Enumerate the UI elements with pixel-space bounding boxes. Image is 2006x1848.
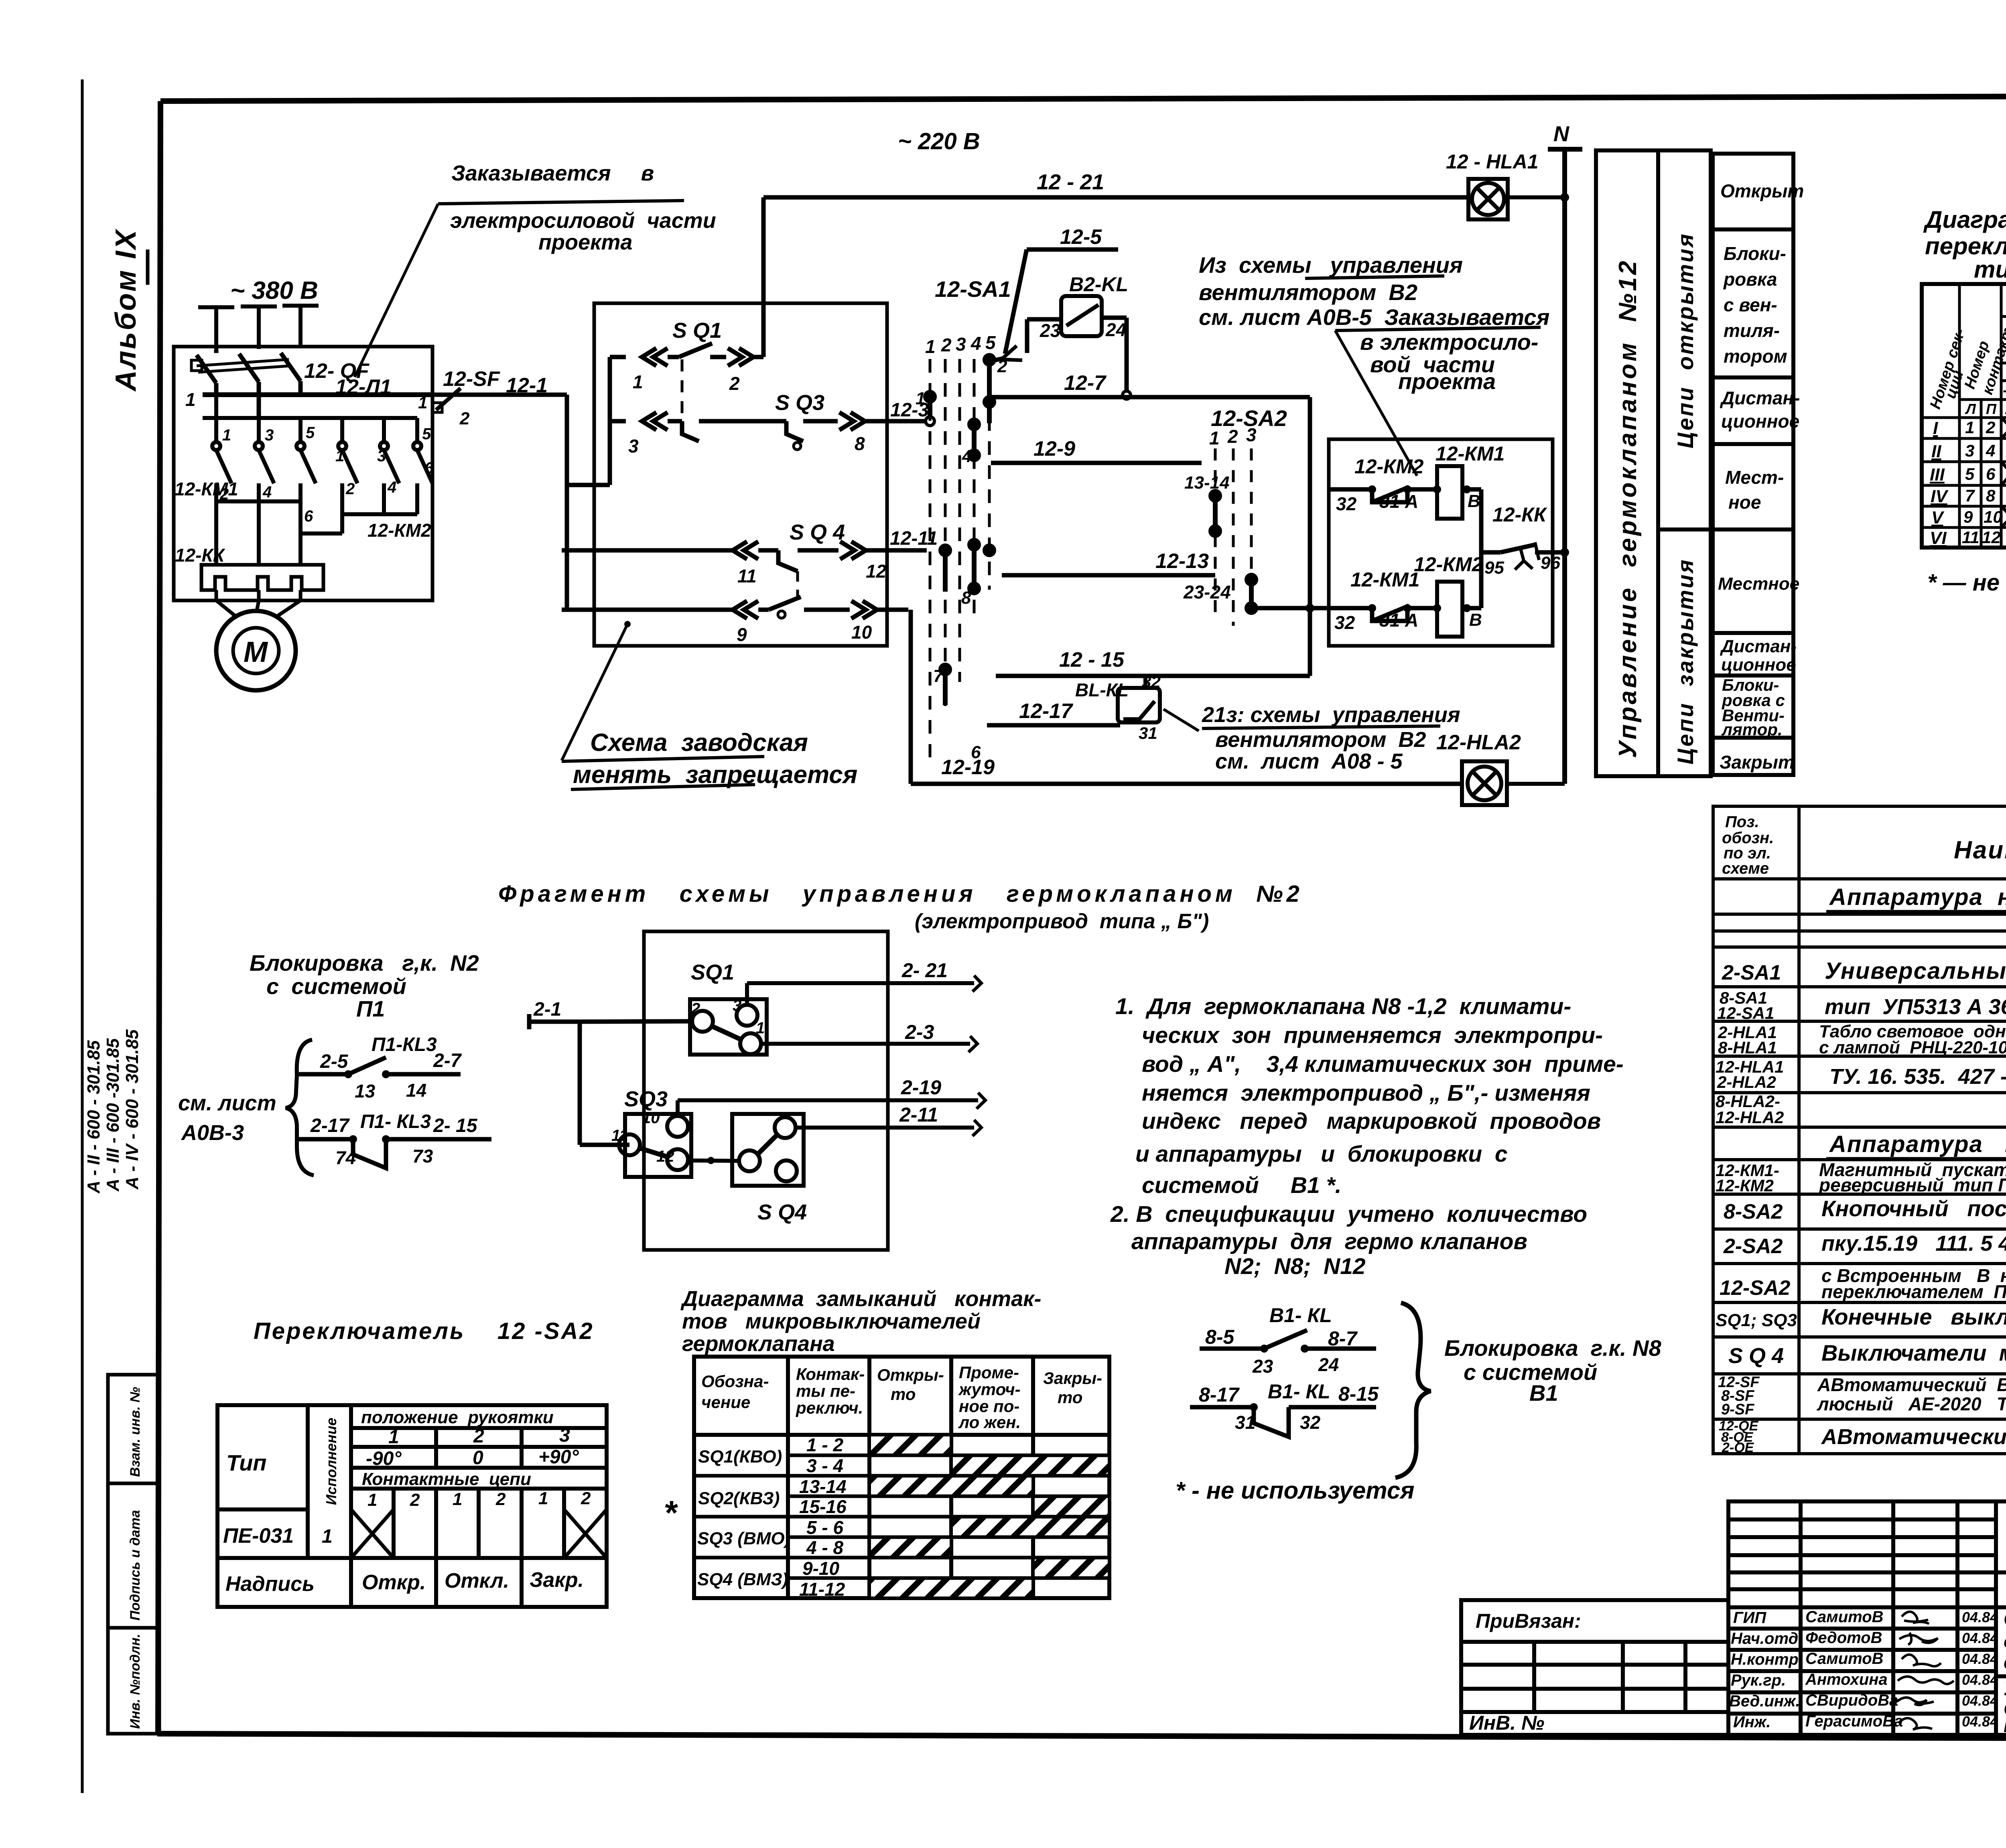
leader to 12-QF [355,204,438,377]
svg-text:1: 1 [756,1019,765,1037]
svg-text:2: 2 [1227,426,1238,447]
svg-text:32: 32 [1334,612,1355,633]
svg-text:Альбом IX: Альбом IX [110,229,142,392]
svg-text:А0В-3: А0В-3 [181,1121,244,1145]
svg-text:12-КМ2: 12-КМ2 [1354,455,1424,478]
svg-text:ФедотоВ: ФедотоВ [1805,1629,1882,1647]
svg-text:SQ4 (ВМЗ): SQ4 (ВМЗ) [697,1570,788,1589]
svg-text:6: 6 [1986,465,1996,483]
svg-text:Л: Л [1965,401,1976,417]
svg-text:1: 1 [222,426,231,444]
svg-text:11-12: 11-12 [799,1579,845,1600]
svg-text:96: 96 [1541,553,1560,573]
svg-text:Мест-: Мест- [1725,467,1784,488]
svg-text:ГерасимоВа: ГерасимоВа [1805,1712,1903,1730]
svg-text:21з: схемы управления: 21з: схемы управления [1202,703,1460,727]
svg-text:П1-КL3: П1-КL3 [372,1034,437,1055]
svg-text:13-14: 13-14 [799,1476,847,1497]
svg-text:10: 10 [1984,507,2002,526]
svg-text:вентилятором В2: вентилятором В2 [1215,728,1426,752]
annotation: Заказывается в электросиловой части проекта [450,161,716,254]
svg-text:5 - 6: 5 - 6 [806,1517,843,1538]
svg-text:4 - 8: 4 - 8 [806,1537,843,1558]
svg-text:12-КМ1: 12-КМ1 [1435,442,1504,465]
svg-text:SQ3 (ВМО): SQ3 (ВМО) [697,1529,790,1548]
svg-text:23-24: 23-24 [1183,582,1231,602]
svg-text:12-Л1: 12-Л1 [335,375,392,399]
svg-text:2: 2 [581,1489,591,1508]
svg-text:Конечные выключатели: Конечные выключатели [1821,1304,2006,1329]
svg-text:SQ3: SQ3 [624,1087,668,1111]
svg-text:+90°: +90° [538,1446,579,1468]
svg-text:14: 14 [406,1080,426,1101]
svg-text:2- 21: 2- 21 [901,959,948,982]
svg-text:4: 4 [1986,441,1995,460]
svg-text:чение: чение [701,1393,750,1412]
svg-text:32: 32 [1336,493,1357,514]
svg-text:5: 5 [306,424,315,442]
svg-text:то: то [891,1385,916,1404]
svg-text:Инв. №подлн.: Инв. №подлн. [128,1634,143,1729]
svg-text:12-SА2: 12-SА2 [1720,1276,1790,1300]
svg-text:тором: тором [1724,346,1787,367]
svg-text:Тип: Тип [226,1450,267,1475]
svg-text:15-16: 15-16 [799,1496,847,1517]
svg-text:12: 12 [656,1148,674,1165]
svg-text:Инж.: Инж. [1733,1713,1771,1731]
signatures (squiggles) [1897,1612,1954,1730]
svg-text:Вед.инж.: Вед.инж. [1729,1692,1800,1710]
svg-text:с лампой РНЦ-220-10: с лампой РНЦ-220-10 [1819,1038,2006,1057]
svg-text:6: 6 [304,507,313,525]
svg-text:В2-KL: В2-KL [1069,273,1128,296]
svg-text:ГИП: ГИП [1733,1609,1766,1627]
svg-text:8: 8 [1986,486,1996,505]
svg-text:32: 32 [1300,1412,1321,1433]
wire 12-9 [991,461,1202,465]
wire 12-15 [996,674,1310,678]
svg-text:Нач.отд: Нач.отд [1731,1630,1798,1647]
svg-text:переключателем ПЕ-031 исп: переключателем ПЕ-031 исп. 1 [1821,1281,2006,1302]
svg-text:13-14: 13-14 [1184,473,1230,493]
svg-text:SQ1(КВО): SQ1(КВО) [698,1447,782,1467]
svg-text:04.84: 04.84 [1962,1672,1998,1688]
wire 12-5 stub with arrow [989,250,1118,361]
svg-text:П1- КL3: П1- КL3 [360,1111,431,1132]
svg-text:Заказывается в: Заказывается в [451,161,654,185]
svg-text:8: 8 [961,588,971,608]
svg-text:2-19: 2-19 [901,1076,941,1099]
svg-text:10: 10 [642,1109,660,1127]
svg-text:8-15: 8-15 [1338,1383,1379,1405]
svg-text:12-НLА2: 12-НLА2 [1716,1108,1784,1127]
12-SA1 contact bridges [926,355,994,705]
svg-text:ПЕ-031: ПЕ-031 [223,1524,294,1548]
svg-text:ционное: ционное [1721,411,1799,432]
svg-text:реключ.: реключ. [796,1398,863,1417]
svg-text:Дистан-: Дистан- [1720,637,1797,656]
svg-text:А - II - 600 - 301.85: А - II - 600 - 301.85 [84,1040,104,1194]
svg-text:3: 3 [1246,424,1257,445]
svg-text:SQ2(КВЗ): SQ2(КВЗ) [698,1489,780,1508]
svg-text:Аппаратура по месту: Аппаратура по месту [1829,1131,2006,1157]
svg-text:гермоклапана: гермоклапана [682,1332,835,1356]
svg-text:-90°: -90° [366,1448,402,1469]
svg-text:12-SA1: 12-SA1 [935,276,1011,302]
svg-text:4: 4 [971,333,981,354]
svg-text:31 А: 31 А [1379,610,1418,631]
svg-text:2: 2 [459,409,470,428]
svg-text:Выключатели муфты: Выключатели муфты [1821,1340,2006,1365]
svg-text:Надпись: Надпись [225,1572,315,1596]
svg-text:Исполнение: Исполнение [323,1418,339,1505]
svg-text:А - IV - 600 - 301.85: А - IV - 600 - 301.85 [122,1029,142,1190]
svg-text:см. лист А0В-5 Заказывается: см. лист А0В-5 Заказывается [1199,304,1549,330]
svg-text:12-9: 12-9 [1033,437,1075,460]
limit switch SQ4 second contact (9-10) [562,597,908,619]
svg-text:СамитоВ: СамитоВ [1805,1650,1884,1667]
svg-text:тов микровыключателей: тов микровыключателей [682,1309,981,1333]
svg-text:31: 31 [1235,1412,1255,1433]
wire 12-21 [763,197,1468,357]
svg-text:см. лист: см. лист [178,1091,276,1115]
svg-text:жуточ-: жуточ- [958,1380,1021,1399]
svg-text:2: 2 [941,335,952,355]
svg-text:3: 3 [1965,441,1974,460]
svg-text:1: 1 [1965,418,1974,437]
svg-text:Цепи открытия: Цепи открытия [1673,232,1698,448]
svg-text:и аппаратуры и блокировки: и аппаратуры и блокировки с [1135,1141,1508,1167]
svg-text:Блокировка г,к. N2: Блокировка г,к. N2 [250,950,479,976]
svg-text:Дистан-: Дистан- [1720,387,1800,408]
svg-text:А - III - 600 -301.85: А - III - 600 -301.85 [103,1038,123,1192]
svg-text:S Q 4: S Q 4 [1728,1344,1784,1368]
svg-text:13: 13 [355,1081,376,1101]
svg-text:12-5: 12-5 [1060,225,1102,249]
svg-text:2: 2 [691,1000,700,1018]
svg-text:VI: VI [1930,528,1947,548]
svg-text:индекс перед маркировкой: индекс перед маркировкой проводов [1142,1108,1601,1134]
svg-text:стоящий заглубленный: стоящий заглубленный [2004,1652,2006,1673]
svg-text:12-SА1: 12-SА1 [1717,1004,1774,1022]
brace [286,1040,314,1175]
svg-text:8: 8 [855,433,865,454]
svg-text:Подпись и дата: Подпись и дата [128,1510,143,1621]
svg-text:1: 1 [388,1426,399,1448]
svg-text:аппаратуры для гермо клапано: аппаратуры для гермо клапанов [1131,1229,1527,1254]
svg-text:12-КМ2: 12-КМ2 [1716,1176,1774,1195]
svg-text:В: В [1468,491,1480,511]
contactor poles 12-KM1 / 12-KM2 [212,395,432,565]
svg-text:В1- КL: В1- КL [1268,1380,1330,1403]
svg-text:74: 74 [335,1147,356,1168]
svg-text:2-11: 2-11 [899,1104,938,1126]
svg-text:проекта: проекта [1398,369,1496,394]
svg-text:~ 380 В: ~ 380 В [230,277,318,304]
svg-text:П: П [1986,401,1997,417]
svg-text:73: 73 [412,1146,433,1166]
contactor box 12-KM1/12-KM2 [1329,439,1553,646]
svg-text:Откл.: Откл. [445,1569,509,1592]
svg-text:1: 1 [335,447,344,465]
svg-text:в электросило-: в электросило- [1360,329,1538,355]
svg-text:Блокировка г.к. N8: Блокировка г.к. N8 [1444,1335,1661,1361]
svg-text:31: 31 [1139,724,1157,742]
svg-text:12-НLА2: 12-НLА2 [1436,731,1521,754]
svg-text:04.84: 04.84 [1962,1609,1998,1625]
svg-text:3: 3 [377,447,386,465]
svg-text:4: 4 [962,446,972,466]
svg-text:III: III [1930,465,1945,485]
svg-text:7: 7 [933,666,944,686]
svg-text:лятор.: лятор. [1721,720,1783,739]
svg-text:принципиальная: принципиальная [2004,1715,2006,1736]
svg-text:1: 1 [322,1526,333,1547]
svg-text:Обозна-: Обозна- [701,1372,769,1391]
svg-text:АВтоматический Выключатель о: АВтоматический Выключатель однопо. [1817,1374,2006,1395]
svg-text:Откры-: Откры- [877,1365,944,1384]
svg-text:8-7: 8-7 [1328,1327,1358,1350]
svg-text:2. В спецификации учтено ко: 2. В спецификации учтено количество [1110,1201,1587,1227]
svg-text:* - не используется: * - не используется [1176,1477,1415,1504]
svg-text:9-10: 9-10 [802,1558,839,1579]
svg-text:0: 0 [473,1447,483,1469]
svg-text:проекта: проекта [538,230,632,254]
svg-text:12-17: 12-17 [1019,700,1073,723]
svg-text:1: 1 [418,393,427,412]
svg-text:12-1: 12-1 [506,374,548,397]
svg-text:ТУ. 16. 535. 427 - 79: ТУ. 16. 535. 427 - 79 [1829,1065,2006,1089]
svg-text:9: 9 [737,624,747,645]
svg-text:вентилятором В2: вентилятором В2 [1199,280,1417,305]
svg-text:S Q4: S Q4 [757,1200,807,1224]
svg-text:то: то [1058,1388,1082,1407]
svg-text:95: 95 [1484,558,1504,578]
svg-text:системой В1 *.: системой В1 *. [1142,1172,1342,1198]
svg-text:2-SА1: 2-SА1 [1722,961,1781,984]
svg-text:Н.контр.: Н.контр. [1731,1651,1803,1668]
svg-text:I: I [1933,418,1938,438]
svg-text:П1: П1 [356,996,385,1021]
brace [1395,1303,1431,1478]
svg-text:В: В [1469,610,1482,630]
svg-text:-90°: -90° [2003,381,2006,399]
svg-text:(электропривод типа „ Б"): (электропривод типа „ Б") [915,910,1209,933]
svg-text:2-5: 2-5 [320,1051,349,1072]
svg-text:тиля-: тиля- [1724,320,1780,341]
album label: Альбом IX [110,229,148,392]
svg-text:N2; N8; N12: N2; N8; N12 [1224,1254,1366,1279]
svg-text:2: 2 [410,1490,420,1510]
svg-text:3: 3 [265,426,274,444]
svg-text:S Q 4: S Q 4 [790,520,845,544]
svg-text:2: 2 [473,1426,484,1447]
svg-text:с вен-: с вен- [1724,294,1777,315]
svg-text:6: 6 [424,459,434,477]
svg-text:2-1: 2-1 [533,999,561,1020]
svg-text:9-SF: 9-SF [1721,1401,1755,1418]
svg-text:2: 2 [729,373,740,394]
svg-text:3: 3 [733,997,741,1014]
svg-text:2: 2 [1986,418,1995,437]
svg-text:2-7: 2-7 [433,1050,462,1071]
svg-text:12-КК: 12-КК [1492,503,1547,526]
breaker 12-SF on wire 12-1 [432,393,567,397]
svg-text:12-КМ2: 12-КМ2 [367,520,431,541]
svg-text:7: 7 [1965,486,1975,505]
svg-text:3 - 4: 3 - 4 [806,1455,843,1476]
svg-text:схеме: схеме [1722,860,1769,877]
svg-text:23: 23 [1040,320,1061,341]
svg-text:Аппаратура на щите (ШУЦ): Аппаратура на щите (ШУЦ) [1829,884,2006,910]
svg-text:ровка: ровка [1723,269,1777,290]
svg-text:ло жен.: ло жен. [958,1413,1021,1432]
svg-text:12 - 15: 12 - 15 [1059,648,1125,671]
svg-text:В1- КL: В1- КL [1269,1304,1332,1327]
svg-text:Наименование: Наименование [1954,836,2006,864]
svg-text:1: 1 [633,371,643,392]
svg-text:V: V [1931,508,1945,527]
svg-text:Рук.гр.: Рук.гр. [1731,1672,1786,1689]
svg-text:Универсальный переключатель: Универсальный переключатель [1825,958,2006,984]
svg-text:ционное: ционное [1721,655,1796,675]
svg-text:Схема заводская: Схема заводская [590,729,808,757]
svg-text:ческих зон применяется элек: ческих зон применяется электропри- [1142,1022,1603,1048]
svg-text:S Q3: S Q3 [775,391,824,415]
svg-text:положение рукоятки: положение рукоятки [361,1408,554,1427]
svg-text:10: 10 [851,622,872,643]
svg-text:Кнопочный пост управления: Кнопочный пост управления [1821,1196,2006,1221]
svg-text:2-SА2: 2-SА2 [1723,1235,1783,1258]
svg-text:1: 1 [925,336,936,357]
svg-text:2-17: 2-17 [310,1115,350,1136]
svg-text:Закрыт: Закрыт [1720,752,1795,773]
svg-text:Контактные цепи: Контактные цепи [362,1469,531,1489]
svg-text:Диаграмма работы: Диаграмма работы [1923,206,2006,233]
svg-text:Закр.: Закр. [530,1568,584,1592]
svg-text:5: 5 [985,332,996,353]
svg-text:11: 11 [737,566,757,586]
svg-text:Переключатель 12 -SА2: Переключатель 12 -SА2 [254,1318,594,1344]
wire 12-7 [991,397,1310,676]
wire 12-13 [1002,573,1215,578]
svg-text:8-5: 8-5 [1205,1326,1234,1348]
svg-text:переключателя 12- SА1: переключателя 12- SА1 [1925,233,2006,260]
svg-text:3: 3 [956,334,966,355]
svg-text:8-SА2: 8-SА2 [1724,1200,1783,1223]
svg-text:8-17: 8-17 [1199,1383,1240,1406]
svg-text:Фрагмент схемы управления: Фрагмент схемы управления гермоклапаном … [498,881,1303,907]
svg-text:люсный АЕ-2020 ТУ16.522.06: люсный АЕ-2020 ТУ16.522.064-75 Jр=1А [1817,1394,2006,1414]
svg-text:1: 1 [916,389,925,408]
svg-text:ты пе-: ты пе- [796,1381,855,1400]
svg-text:Цепи закрытия: Цепи закрытия [1673,558,1698,765]
svg-text:31 А: 31 А [1379,491,1418,512]
svg-text:24: 24 [1105,319,1126,340]
svg-text:Открыт: Открыт [1720,181,1804,201]
svg-text:12-КМ1: 12-КМ1 [1350,568,1419,591]
svg-text:2- 15: 2- 15 [433,1115,478,1136]
wire: second bus [203,416,417,420]
svg-text:В1: В1 [1529,1380,1558,1406]
svg-text:12-КК: 12-КК [175,545,225,566]
svg-text:Поз.: Поз. [1725,813,1759,831]
svg-text:12-КМ1: 12-КМ1 [175,479,238,499]
svg-text:8-НLА1: 8-НLА1 [1718,1038,1777,1057]
wire 12-17 [987,723,1120,728]
svg-text:12-19: 12-19 [941,756,995,779]
svg-text:ПриВязан:: ПриВязан: [1476,1610,1581,1632]
svg-text:2-QЕ: 2-QЕ [1722,1440,1754,1455]
svg-text:тип УП5313 А 368 ТУ 16. 52: тип УП5313 А 368 ТУ 16. 524. 07 4 -75 [1825,995,2006,1019]
svg-text:Контак-: Контак- [796,1365,865,1383]
svg-text:2: 2 [345,480,355,498]
svg-text:12-13: 12-13 [1155,550,1209,573]
svg-text:СамитоВ: СамитоВ [1805,1608,1884,1626]
svg-text:* — не используется: * — не используется [1927,570,2006,596]
svg-text:электросиловой части: электросиловой части [450,209,716,233]
svg-text:1: 1 [453,1489,462,1509]
factory note leader [624,621,631,627]
svg-text:11: 11 [1962,528,1980,547]
svg-text:пку.15.19 111. 5 4 У3.ТУ 1: пку.15.19 111. 5 4 У3.ТУ 16.526.333-74 [1821,1231,2006,1256]
svg-text:1. Для гермоклапана N8 -1,2: 1. Для гермоклапана N8 -1,2 климати- [1115,994,1571,1019]
left margin stamp strip: Взам.инв.N / Подпись и дата / Инв.N подл. [108,1375,159,1734]
svg-text:23: 23 [1252,1356,1273,1377]
svg-text:Местное: Местное [1718,574,1799,594]
svg-text:12-SF: 12-SF [443,367,500,391]
svg-text:Проме-: Проме- [959,1363,1019,1382]
svg-text:Откр.: Откр. [362,1571,426,1594]
svg-text:32: 32 [1142,672,1161,691]
svg-text:3: 3 [628,436,639,456]
svg-text:Диаграмма замыканий контак-: Диаграмма замыканий контак- [680,1287,1041,1311]
svg-text:II: II [1931,442,1941,461]
wire: down from 9-10 to 12-19 [909,610,913,784]
svg-text:М: М [244,636,268,668]
svg-text:9: 9 [1963,507,1973,526]
circuit breaker 12-QF [191,350,300,417]
wire 12-19 [911,782,1462,786]
svg-text:SQ1; SQ3: SQ1; SQ3 [1716,1310,1797,1330]
svg-text:Антохина: Антохина [1805,1671,1888,1688]
svg-text:5: 5 [422,425,431,443]
annotation: 21з: схемы управления вентилятором В2 см.лист А08-5 [1163,709,1199,731]
svg-text:Взам. инв. №: Взам. инв. № [128,1387,143,1477]
svg-text:12-КМ2: 12-КМ2 [1414,553,1483,576]
svg-text:с системой: с системой [266,974,406,999]
svg-text:Управление гермоклапаном №12: Управление гермоклапаном №12 [1614,259,1642,758]
wire to contactor coils (row feed) [1251,606,1329,611]
svg-text:*: * [664,1494,678,1532]
svg-text:24: 24 [1318,1354,1339,1375]
svg-text:Склад материалоВ и: Склад материалоВ и [2004,1609,2006,1630]
svg-text:04.84: 04.84 [1962,1630,1998,1646]
limit-switch box SQ1/SQ3/SQ4 [594,303,887,646]
svg-text:04.84: 04.84 [1962,1713,1998,1730]
svg-text:Из схемы управления: Из схемы управления [1199,252,1463,278]
svg-text:вод „ А", 3,4 климатических: вод „ А", 3,4 климатических зон приме- [1142,1051,1624,1077]
svg-text:няется электропривод „ Б",- и: няется электропривод „ Б",- изменяя [1142,1080,1590,1106]
svg-text:N: N [1553,122,1569,146]
sheet outer trim line (left paper edge) [81,79,84,1793]
fragment box [644,931,888,1250]
svg-text:1: 1 [1209,428,1220,448]
svg-text:2: 2 [495,1489,506,1509]
reference list (left margin rotated): A-II/III/IV-600-301.85 [84,1029,142,1194]
svg-text:12: 12 [1982,528,2001,547]
svg-text:12: 12 [866,561,887,582]
